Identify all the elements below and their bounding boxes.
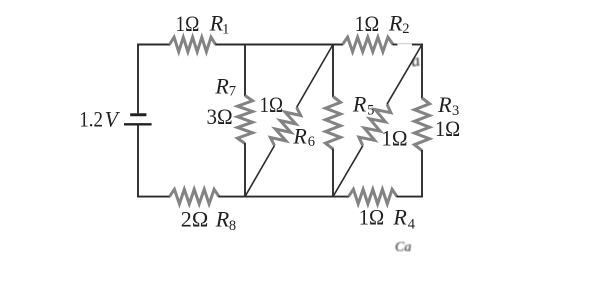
svg-text:R: R xyxy=(215,207,230,232)
svg-text:7: 7 xyxy=(229,84,236,100)
label: R3 designator xyxy=(437,92,459,119)
resistor R2 zigzag xyxy=(343,37,394,52)
label: 1Ω value of R6 xyxy=(260,92,284,117)
resistor R4 zigzag xyxy=(349,189,398,204)
svg-text:3Ω: 3Ω xyxy=(207,104,233,129)
wire: top rail into top-right corner T3 xyxy=(412,44,423,46)
svg-text:V: V xyxy=(105,107,121,132)
label: R1 designator xyxy=(209,10,230,37)
watermark remnant below R4 label xyxy=(395,240,411,255)
wire: top rail, R1 to node T2 xyxy=(215,44,343,46)
label: 1Ω value of R4 xyxy=(359,205,384,230)
wire: middle branch lower lead to node B2 xyxy=(332,149,334,198)
label: R5 designator xyxy=(352,91,374,118)
resistor R7 zigzag (vertical) xyxy=(237,96,252,144)
svg-text:Ca: Ca xyxy=(395,240,411,255)
label: R2 designator xyxy=(388,10,410,37)
svg-text:R: R xyxy=(352,91,367,116)
wire: left rail upper (battery top lead) xyxy=(137,44,139,114)
wire: faded rail remnant (watermark erased) xyxy=(397,43,413,45)
label: 3Ω value of R7 xyxy=(207,104,233,129)
label: 1Ω value of R2 xyxy=(355,11,380,36)
label: R4 designator xyxy=(392,205,415,233)
wire: top rail, battery to R1 xyxy=(137,44,170,46)
resistor R3 zigzag (vertical) xyxy=(414,98,429,151)
wire: diagonal 1Ω resistor upper lead to corner T3 xyxy=(387,45,422,105)
label: 1Ω value of R1 xyxy=(176,11,200,36)
label: 1Ω value of diagonal resistor xyxy=(381,125,407,150)
wire: R6 lower lead from node B1 xyxy=(245,146,275,197)
svg-text:1Ω: 1Ω xyxy=(435,116,460,141)
resistor R1 zigzag xyxy=(170,37,216,52)
svg-text:1Ω: 1Ω xyxy=(260,92,284,117)
battery 1.2V: short plate xyxy=(130,113,146,116)
wire: right branch lower lead to bottom-right corner xyxy=(421,150,423,197)
wire: top rail, R2 to faded patch xyxy=(393,44,398,46)
svg-text:1Ω: 1Ω xyxy=(381,125,407,150)
battery 1.2V: long plate xyxy=(124,123,152,125)
svg-text:2Ω: 2Ω xyxy=(181,207,209,232)
label: R8 designator xyxy=(215,207,236,234)
resistor R8 zigzag xyxy=(170,189,220,204)
label: 2Ω value of R8 xyxy=(181,207,209,232)
label: R6 designator xyxy=(292,124,315,151)
resistor R5 zigzag (vertical, middle branch) xyxy=(325,97,340,150)
svg-text:1Ω: 1Ω xyxy=(359,205,384,230)
wire: R7 branch upper lead from top rail xyxy=(244,44,246,96)
svg-text:4: 4 xyxy=(408,217,416,233)
wire: R7 branch lower lead to bottom rail xyxy=(244,143,246,197)
wire: bottom rail, R8 to node B2 xyxy=(219,196,350,198)
wire: diagonal 1Ω resistor lower lead from node B2 xyxy=(333,146,363,197)
wire: right branch upper lead from corner T3 xyxy=(421,44,423,99)
watermark remnant near T3 xyxy=(409,50,421,70)
svg-text:1Ω: 1Ω xyxy=(176,11,200,36)
svg-text:R: R xyxy=(437,92,452,117)
wire: middle branch upper lead from node T2 xyxy=(332,44,334,97)
svg-text:a: a xyxy=(409,50,421,70)
label: R7 designator xyxy=(214,74,236,100)
resistor (diagonal 1Ω beside R5) zigzag xyxy=(359,104,391,146)
svg-text:6: 6 xyxy=(308,134,315,150)
svg-text:1: 1 xyxy=(222,21,229,37)
svg-text:R: R xyxy=(388,10,403,35)
svg-text:1Ω: 1Ω xyxy=(355,11,380,36)
wire: bottom rail, battery to R8 xyxy=(137,196,170,198)
svg-text:2: 2 xyxy=(402,21,409,37)
label: 1.2V battery value xyxy=(79,107,120,132)
wire: R6 upper lead to node T2 xyxy=(297,45,333,108)
wire: left rail lower (battery bottom lead) xyxy=(137,126,139,198)
svg-text:5: 5 xyxy=(367,103,374,119)
wire: bottom rail, R4 to bottom-right corner xyxy=(397,196,423,198)
svg-text:8: 8 xyxy=(229,218,236,234)
svg-text:R: R xyxy=(214,74,229,99)
resistor R6 zigzag (diagonal) xyxy=(270,107,300,145)
svg-text:R: R xyxy=(392,205,407,230)
svg-text:R: R xyxy=(292,124,307,149)
svg-text:1.2: 1.2 xyxy=(79,107,103,132)
label: 1Ω value of R3 xyxy=(435,116,460,141)
